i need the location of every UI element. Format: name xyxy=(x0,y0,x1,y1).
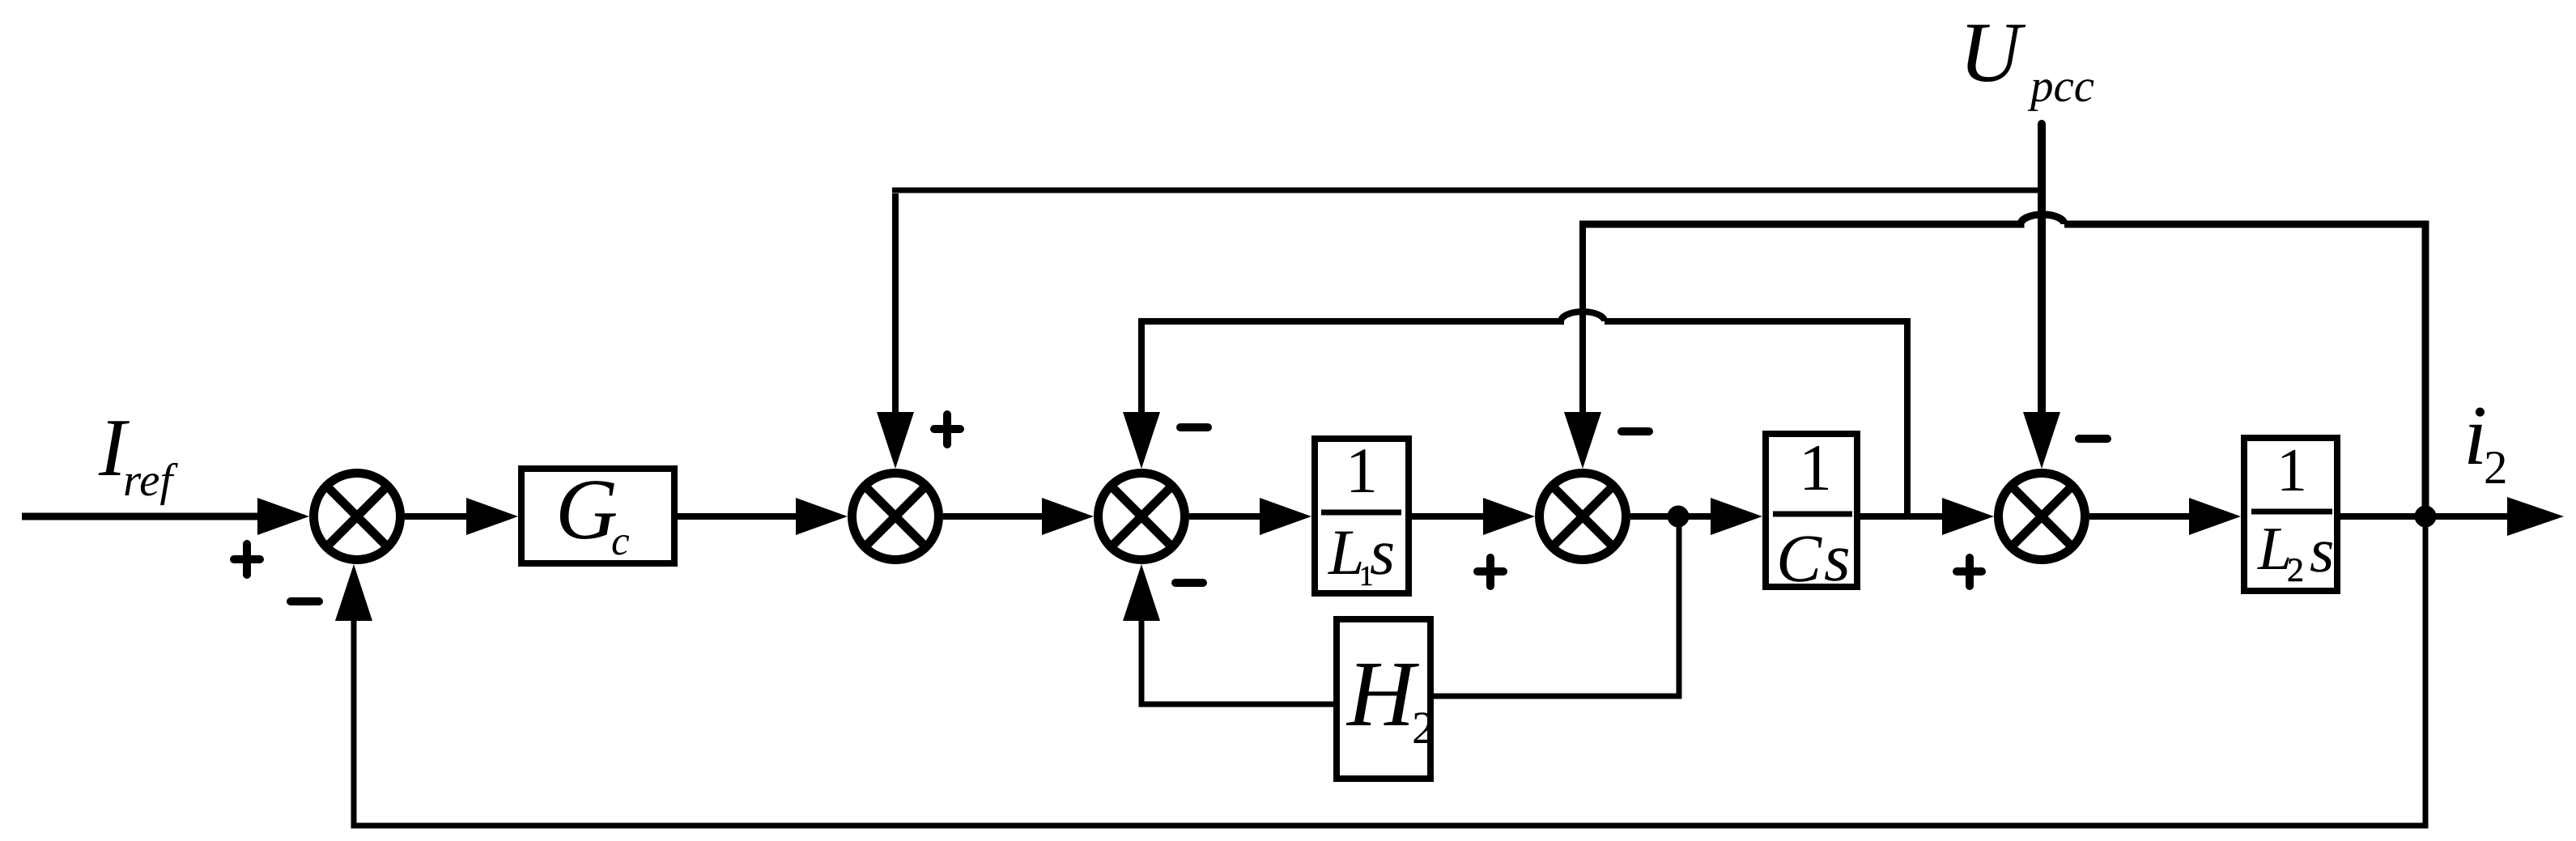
svg-text:ref: ref xyxy=(123,455,178,506)
svg-text:s: s xyxy=(1824,520,1851,596)
svg-text:U: U xyxy=(1959,5,2026,100)
svg-text:1: 1 xyxy=(1799,431,1832,504)
svg-text:s: s xyxy=(2310,515,2334,585)
svg-text:G: G xyxy=(555,462,618,558)
svg-text:1: 1 xyxy=(1345,435,1378,507)
svg-text:2: 2 xyxy=(1412,703,1435,754)
svg-text:1: 1 xyxy=(2276,436,2307,504)
svg-text:2: 2 xyxy=(2287,552,2304,589)
svg-text:2: 2 xyxy=(2484,440,2508,494)
svg-text:C: C xyxy=(1776,521,1822,597)
svg-text:s: s xyxy=(1370,517,1395,588)
svg-text:H: H xyxy=(1345,643,1419,746)
svg-text:c: c xyxy=(611,519,630,564)
svg-text:pcc: pcc xyxy=(2027,61,2094,112)
